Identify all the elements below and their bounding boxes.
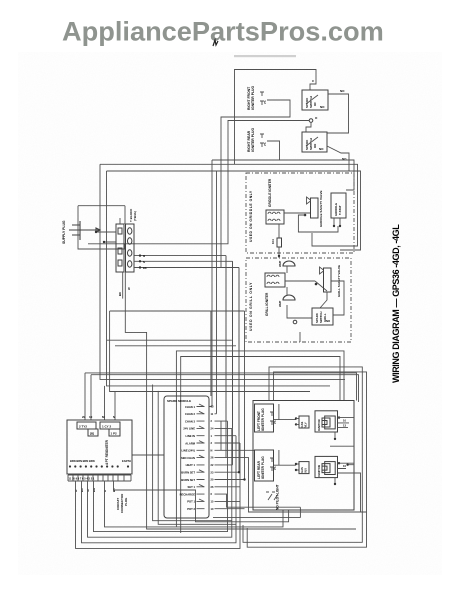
T-block top feed [120, 206, 125, 224]
rear module bottom stub [334, 478, 336, 484]
ignitor module front [315, 411, 338, 432]
wire wrap box left inner [158, 391, 236, 524]
ignition control box [164, 396, 209, 518]
wire earth link [132, 454, 164, 456]
wire wrap y350.9 [176, 351, 344, 527]
reigniter terminal dots [69, 465, 129, 467]
left front plug pins [270, 412, 274, 425]
rear module right pins [338, 462, 340, 464]
wire long bus y163.5 [100, 164, 358, 246]
wire igniter to valve [284, 212, 311, 214]
wire right rear plug down [267, 141, 280, 160]
gas valve rear [299, 462, 309, 474]
header small artifact mark [213, 40, 218, 46]
wire right front plug to bus [135, 100, 290, 268]
griddle t-stat [331, 193, 346, 218]
griddle safety valve [311, 198, 319, 218]
ignition control terminal rows [180, 405, 196, 511]
wire igniter to grill valve [285, 281, 327, 291]
wire vertical bus x212 [211, 160, 213, 407]
wire wrap y374.7 [91, 375, 359, 402]
wire valve to switch [320, 292, 327, 308]
griddle igniter [266, 210, 284, 224]
wire SW2 NO out [327, 146, 349, 171]
wire grill stub bottom [299, 332, 301, 342]
wire long bus y168.5 [107, 171, 361, 250]
wire wrap y372.9 [85, 373, 357, 401]
bundle verticals T-block to rows [211, 256, 245, 480]
right front plug pins [260, 92, 264, 105]
wire SW1 NO to SW2 NO [327, 94, 349, 133]
front module right pins [338, 416, 340, 418]
wire link y517.6 [213, 507, 300, 517]
wire O to SW2 [306, 122, 311, 132]
wire bus x104 down [107, 171, 331, 386]
resistor 104 [278, 224, 280, 238]
reigniter pins up [85, 373, 115, 420]
node O terminal [309, 119, 313, 123]
wire switch out right [331, 281, 344, 315]
wire wrap y345.8 [115, 345, 236, 347]
wire O terminal bus [88, 121, 309, 244]
right rear plug pins [260, 134, 264, 147]
spark switch SW1 [302, 90, 328, 110]
spark switch SW2 [302, 132, 327, 152]
left rear plug pins [270, 458, 274, 471]
wire wrap y371.9 [247, 372, 366, 547]
T-block left wires [96, 232, 116, 242]
connector strip [68, 475, 131, 481]
wire front plug to gas valve [274, 404, 296, 420]
scan smudge line [234, 55, 296, 57]
front module bottom stub [334, 432, 336, 439]
wire long bus y160 [212, 160, 354, 190]
reigniter top cells [77, 422, 96, 429]
wire electrode to switch [287, 305, 312, 318]
ignitor module rear [315, 456, 338, 477]
grill dashed box [246, 258, 351, 342]
supply plug loop wire [78, 206, 125, 249]
wire bus x109.6 down [110, 311, 310, 396]
supply plug symbol [69, 221, 100, 240]
node valve bottom [304, 214, 307, 217]
pilot stub marks [266, 492, 278, 500]
left plugs enclosure [253, 401, 354, 511]
wire valve loop to t-stat [298, 215, 338, 232]
wire wrap y356.5 [181, 357, 340, 534]
reigniter module box [67, 420, 132, 474]
terminal block TB4A [116, 224, 124, 272]
griddle dashed box [246, 173, 354, 253]
wire wrap y340.2 [107, 339, 232, 341]
T-block bottom stubs [122, 272, 124, 299]
wire wrap box left outer [153, 385, 232, 521]
grill igniter [265, 273, 285, 287]
wire wrap y366.9 [243, 367, 362, 542]
svg-text:AppliancePartsPros.com: AppliancePartsPros.com [62, 15, 384, 46]
wire vertical bus x216.5 [216, 171, 218, 414]
ignition terminal numbers [211, 405, 214, 511]
grill electrode bottom [283, 295, 295, 300]
wire top loop left vertical [235, 70, 317, 165]
T-block right wires [134, 256, 239, 268]
wire rear plug to gas valve [274, 450, 296, 465]
grill electrode top [283, 261, 295, 266]
wire vertical bus x239 [238, 268, 240, 437]
wire bus x96.6 down [100, 164, 345, 379]
wire mid link [330, 446, 354, 465]
spark switch grill [312, 308, 333, 325]
left front igniter plug label [255, 404, 274, 432]
wire vertical bus x226 [135, 256, 226, 420]
connector drop wires [76, 443, 241, 548]
wire vertical bus x232.5 [135, 261, 233, 428]
grill safety valve [324, 268, 332, 292]
left rear igniter plug label [255, 450, 274, 481]
ignition row out wires [209, 407, 240, 444]
gas valve front [299, 416, 309, 428]
